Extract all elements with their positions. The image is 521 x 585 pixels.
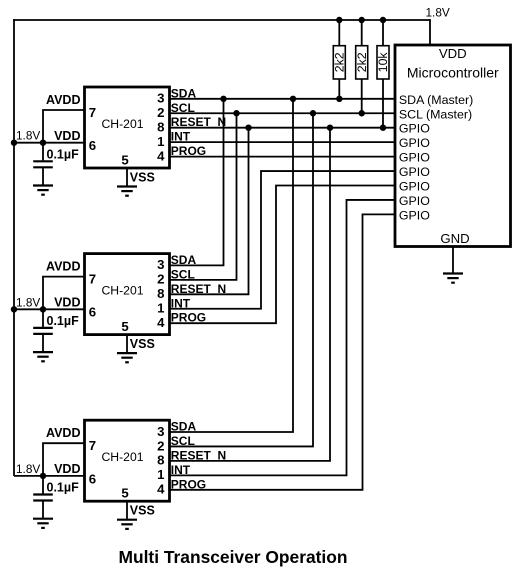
junction dots on top rail (336, 17, 342, 23)
svg-text:GPIO: GPIO (399, 165, 430, 179)
svg-text:1: 1 (157, 134, 164, 149)
ground U2 VSS (117, 352, 137, 354)
svg-text:VDD: VDD (54, 296, 80, 310)
wire U1 VDD (14, 142, 85, 144)
svg-text:GPIO: GPIO (399, 136, 430, 150)
svg-text:4: 4 (157, 482, 165, 497)
wire U2 AVDD (43, 277, 85, 310)
svg-text:3: 3 (157, 257, 164, 272)
svg-text:INT: INT (171, 130, 191, 144)
svg-text:2: 2 (157, 105, 164, 120)
svg-text:VSS: VSS (130, 337, 155, 351)
wire MCU VDD drop (429, 19, 431, 45)
junction U3 cap tap (40, 473, 46, 479)
capacitor C1 0.1uF (33, 143, 53, 186)
svg-text:RESET_N: RESET_N (171, 448, 226, 462)
wire chip3 INT to GPIO6 (170, 200, 396, 475)
ground MCU (443, 272, 463, 274)
microcontroller U4 box (395, 45, 511, 247)
svg-text:PROG: PROG (171, 311, 206, 325)
svg-text:2: 2 (157, 438, 164, 453)
svg-text:8: 8 (157, 453, 164, 468)
ground below C3 (33, 518, 53, 520)
svg-text:AVDD: AVDD (46, 93, 81, 107)
capacitor C2 0.1uF (33, 309, 53, 352)
wire chip3 SDA riser (170, 99, 294, 432)
resistor R3 10k (376, 20, 390, 128)
svg-text:SDA: SDA (171, 420, 197, 434)
wire chip2 RESET_N riser (170, 128, 249, 295)
svg-text:GPIO: GPIO (399, 208, 430, 222)
svg-text:CH-201: CH-201 (102, 450, 144, 464)
svg-text:5: 5 (121, 486, 128, 501)
svg-text:1.8V: 1.8V (16, 295, 40, 309)
svg-text:7: 7 (89, 271, 96, 286)
wire U3 VSS stem (126, 501, 128, 519)
wire chip2 INT to GPIO4 (170, 171, 396, 309)
svg-text:7: 7 (89, 105, 96, 120)
junction R1 bottom (336, 96, 342, 102)
svg-text:5: 5 (121, 319, 128, 334)
svg-text:SCL: SCL (171, 267, 195, 281)
svg-text:VDD: VDD (439, 46, 467, 61)
svg-text:INT: INT (171, 296, 191, 310)
wire U2 VSS stem (126, 335, 128, 353)
svg-text:4: 4 (157, 315, 165, 330)
capacitor C3 0.1uF (33, 476, 53, 519)
wire U2 VDD (14, 308, 85, 310)
svg-text:GPIO: GPIO (399, 151, 430, 165)
wire chip3 PROG to GPIO7 (170, 214, 396, 489)
svg-text:GPIO: GPIO (399, 194, 430, 208)
svg-text:GPIO: GPIO (399, 180, 430, 194)
svg-text:1: 1 (157, 301, 164, 316)
svg-text:AVDD: AVDD (46, 426, 81, 440)
svg-text:7: 7 (89, 438, 96, 453)
svg-text:0.1µF: 0.1µF (47, 481, 80, 495)
svg-text:RESET_N: RESET_N (171, 115, 226, 129)
svg-text:2k2: 2k2 (355, 52, 369, 72)
svg-text:1.8V: 1.8V (426, 6, 450, 20)
svg-text:SCL: SCL (171, 434, 195, 448)
svg-text:6: 6 (89, 305, 96, 320)
svg-text:GPIO: GPIO (399, 122, 430, 136)
svg-text:2: 2 (157, 272, 164, 287)
wire chip3 SCL riser (170, 113, 314, 446)
svg-text:CH-201: CH-201 (102, 117, 144, 131)
svg-text:SDA: SDA (171, 253, 197, 267)
op-amp U3 CH-201 transceiver box (85, 420, 170, 501)
svg-text:GND: GND (440, 231, 469, 246)
wire 1.8V left rail (13, 19, 15, 476)
svg-text:RESET_N: RESET_N (171, 282, 226, 296)
svg-text:PROG: PROG (171, 477, 206, 491)
svg-text:AVDD: AVDD (46, 260, 81, 274)
wire U3 VDD (14, 475, 85, 477)
wire SCL bus (chip1 to MCU) (170, 112, 396, 114)
junction dots RESET_N bus (245, 125, 251, 131)
svg-text:0.1µF: 0.1µF (47, 147, 80, 161)
wire chip2 SCL riser (170, 113, 237, 280)
svg-text:5: 5 (121, 153, 128, 168)
ground U1 VSS (117, 185, 137, 187)
junction R2 bottom (359, 110, 365, 116)
svg-text:SDA: SDA (171, 86, 197, 100)
svg-text:INT: INT (171, 463, 191, 477)
svg-text:4: 4 (157, 148, 165, 163)
svg-text:1: 1 (157, 467, 164, 482)
wire RESET_N bus (chip1 to MCU) (170, 127, 396, 129)
ground below C1 (33, 184, 53, 186)
resistor R1 2k2 (333, 20, 347, 99)
wire chip3 RESET_N riser (170, 128, 331, 461)
ground U3 VSS (117, 519, 137, 521)
svg-text:Microcontroller: Microcontroller (407, 65, 499, 81)
svg-text:6: 6 (89, 138, 96, 153)
svg-text:8: 8 (157, 286, 164, 301)
wire U3 AVDD (43, 443, 85, 476)
wire U1 VSS stem (126, 168, 128, 186)
op-amp U2 CH-201 transceiver box (85, 254, 170, 335)
wire 1.8V top rail (13, 19, 430, 21)
svg-text:VSS: VSS (130, 504, 155, 518)
svg-text:PROG: PROG (171, 144, 206, 158)
svg-text:VDD: VDD (54, 462, 80, 476)
wire U1 AVDD (43, 110, 85, 143)
op-amp U1 CH-201 transceiver box (85, 87, 170, 168)
svg-text:SDA (Master): SDA (Master) (399, 93, 473, 107)
junction U2 rail tap (11, 306, 17, 312)
wire chip2 SDA riser (170, 99, 224, 266)
junction U1 rail tap (11, 140, 17, 146)
junction U2 cap tap (40, 306, 46, 312)
svg-text:VDD: VDD (54, 129, 80, 143)
svg-text:2k2: 2k2 (333, 52, 347, 72)
svg-text:8: 8 (157, 120, 164, 135)
svg-text:3: 3 (157, 91, 164, 106)
svg-text:6: 6 (89, 471, 96, 486)
svg-text:1.8V: 1.8V (16, 462, 40, 476)
junction U1 cap tap (40, 140, 46, 146)
wire SDA bus (chip1 to MCU) (170, 98, 396, 100)
svg-text:Multi Transceiver Operation: Multi Transceiver Operation (118, 547, 347, 567)
resistor R2 2k2 (355, 20, 369, 113)
ground below C2 (33, 351, 53, 353)
svg-text:3: 3 (157, 424, 164, 439)
junction dots SCL bus (233, 110, 239, 116)
wire PROG bus (chip1 to MCU) (170, 156, 396, 158)
wire MCU GND stem (452, 247, 454, 273)
junction R3 bottom (380, 125, 386, 131)
junction dots SDA bus (220, 96, 226, 102)
svg-text:SCL: SCL (171, 101, 195, 115)
wire chip2 PROG to GPIO5 (170, 186, 396, 324)
svg-text:VSS: VSS (130, 171, 155, 185)
svg-text:0.1µF: 0.1µF (47, 314, 80, 328)
svg-text:SCL (Master): SCL (Master) (399, 107, 472, 121)
svg-text:1.8V: 1.8V (16, 129, 40, 143)
wire INT bus (chip1 to MCU) (170, 141, 396, 143)
svg-text:10k: 10k (376, 52, 390, 73)
svg-text:CH-201: CH-201 (102, 283, 144, 297)
